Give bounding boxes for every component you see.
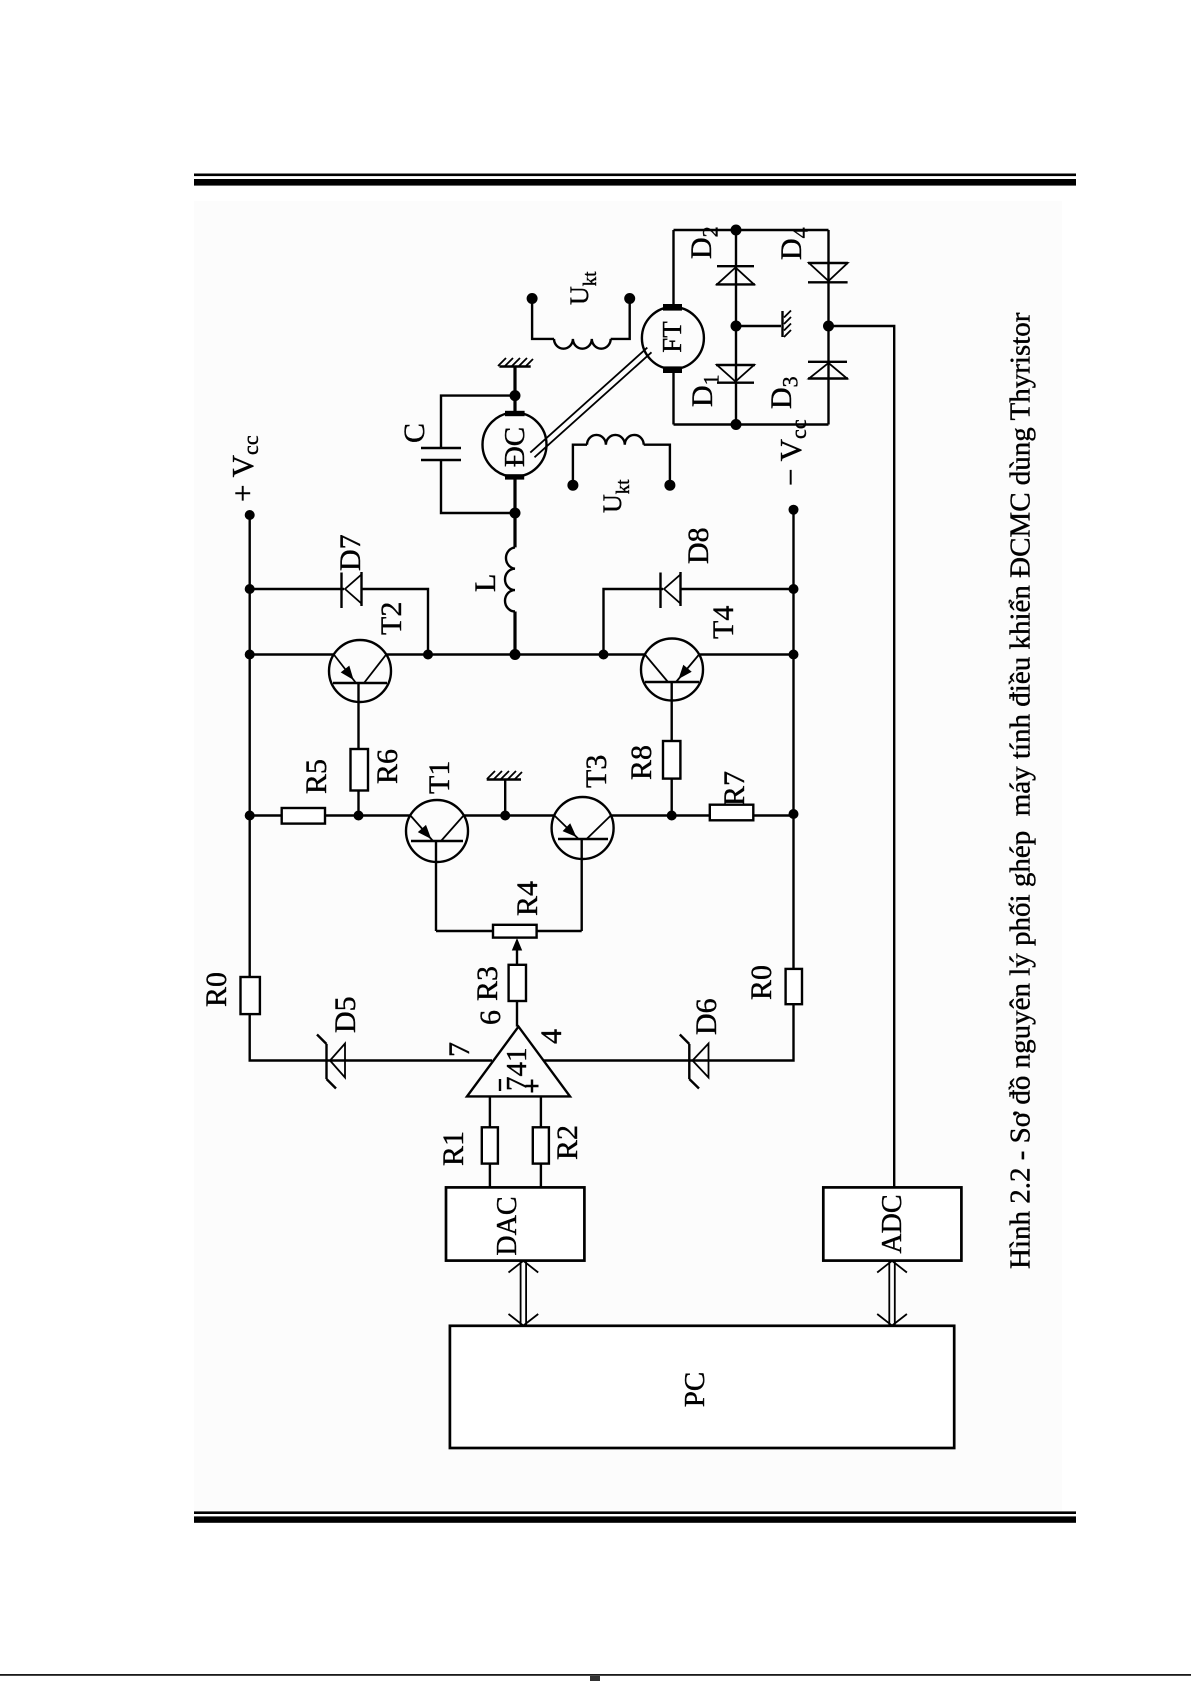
svg-text:T1: T1 bbox=[423, 761, 456, 794]
wire ground stub from bridge middle bbox=[736, 325, 781, 327]
bridge bottom side bbox=[827, 230, 829, 425]
resistor R3 bbox=[509, 965, 526, 1001]
node D7 branch at +Vcc rail bbox=[245, 584, 255, 594]
svg-text:D7: D7 bbox=[334, 534, 367, 571]
wire motor row left segment with inductor lead bbox=[513, 612, 516, 655]
tachogenerator FT bbox=[642, 304, 704, 373]
top double rule thin line bbox=[194, 174, 1076, 177]
node R5 column at +Vcc rail bbox=[245, 811, 255, 821]
node bridge middle junction bbox=[731, 321, 742, 332]
op-amp U1 741 triangle bbox=[467, 1027, 570, 1097]
resistor R6 bbox=[351, 749, 369, 791]
bridge right side bbox=[674, 229, 829, 231]
transistor T3 bbox=[552, 797, 614, 859]
diode D3 bbox=[808, 362, 848, 379]
node motor row at collector column bbox=[510, 649, 521, 660]
svg-text:R8: R8 bbox=[625, 745, 658, 780]
wire op-amp non-inverting input bbox=[540, 1096, 542, 1127]
resistor R0 (on -Vcc rail) bbox=[786, 969, 802, 1004]
wire T1 base line bbox=[435, 841, 437, 931]
capacitor C branch right side bbox=[441, 396, 515, 448]
wire -Vcc rail and left rise to op-amp pin 4 bbox=[544, 510, 794, 1061]
wire motor row right segment to ground bbox=[513, 367, 516, 413]
bottom page edge hairline bbox=[0, 1674, 1191, 1676]
wire D8 branch bbox=[604, 589, 794, 655]
svg-text:DAC: DAC bbox=[492, 1196, 523, 1255]
wire R4 column between T1 base and T3 base bbox=[436, 930, 582, 932]
node D8 branch at collector column bbox=[599, 650, 609, 660]
ground (mid circuit) bbox=[487, 771, 522, 780]
wire D7 branch bbox=[250, 589, 428, 655]
svg-text:R7: R7 bbox=[718, 771, 751, 806]
scan area tint bbox=[194, 201, 1062, 1511]
shaft coupling double line bbox=[530, 348, 651, 458]
ground (bridge) bbox=[783, 311, 792, 338]
bus PC-ADC right chevron bbox=[877, 1261, 907, 1273]
node D7 branch at collector column bbox=[423, 650, 433, 660]
resistor R8 bbox=[663, 741, 680, 779]
bus PC-ADC left chevron bbox=[877, 1314, 907, 1326]
svg-text:R0: R0 bbox=[745, 965, 778, 1000]
field winding Ukt (upper) bbox=[532, 299, 630, 349]
wire R3 to R4 wiper with arrow bbox=[516, 949, 518, 965]
svg-text:R1: R1 bbox=[437, 1131, 470, 1166]
node R5 column at -Vcc rail bbox=[789, 809, 799, 819]
svg-text:T4: T4 bbox=[707, 606, 740, 639]
inductor L bbox=[505, 547, 515, 611]
resistor R7 bbox=[710, 805, 754, 821]
svg-text:D5: D5 bbox=[329, 996, 362, 1033]
box PC bbox=[450, 1326, 954, 1448]
transistor T1 bbox=[406, 800, 468, 862]
page number mark at bottom center bbox=[590, 1676, 600, 1681]
op-amp minus input mark bbox=[499, 1079, 501, 1091]
resistor R1 bbox=[482, 1127, 498, 1163]
arrow R4 wiper head bbox=[512, 938, 522, 951]
bus PC-DAC double line bbox=[521, 1261, 527, 1324]
bridge top side left segment bbox=[672, 373, 674, 425]
wire DAC to R1 bbox=[489, 1164, 491, 1188]
diode D8 bbox=[661, 572, 681, 608]
diode D7 bbox=[342, 572, 362, 608]
resistor R2 bbox=[533, 1127, 549, 1163]
diode D1 bbox=[716, 365, 755, 383]
node Ukt lower right terminal bbox=[664, 480, 675, 491]
node Ukt lower left terminal bbox=[567, 480, 578, 491]
svg-text:C: C bbox=[398, 423, 431, 443]
svg-text:R6: R6 bbox=[371, 749, 404, 784]
op-amp plus input mark bbox=[526, 1080, 539, 1093]
node collector column at +Vcc rail bbox=[245, 650, 255, 660]
svg-text:L: L bbox=[469, 574, 502, 592]
svg-text:R3: R3 bbox=[471, 966, 504, 1001]
bottom double rule thin line bbox=[194, 1511, 1076, 1514]
zener diode D5 bbox=[317, 1035, 345, 1089]
wire bridge to ADC bbox=[829, 326, 895, 1187]
node Ukt upper left terminal bbox=[527, 293, 538, 304]
bus PC-DAC left chevron bbox=[509, 1314, 539, 1326]
motor DC machine bbox=[483, 411, 547, 480]
bridge top side right segment bbox=[672, 230, 674, 304]
wire T3 base line bbox=[581, 839, 583, 931]
node bridge middle right bbox=[731, 225, 742, 236]
svg-text:R0: R0 bbox=[200, 972, 233, 1007]
top double rule thick line bbox=[194, 179, 1076, 186]
node T2 base / R5 junction bbox=[354, 811, 364, 821]
node C branch left junction bbox=[510, 508, 521, 519]
svg-text:R5: R5 bbox=[300, 759, 333, 794]
field winding Ukt (lower) bbox=[573, 435, 670, 485]
wire op-amp output to R3 bbox=[516, 1001, 518, 1027]
svg-text:FT: FT bbox=[657, 321, 687, 353]
zener diode D6 bbox=[680, 1035, 709, 1089]
wire earth stub from R5 column bbox=[504, 780, 506, 816]
node T4 base / R5 junction bbox=[667, 811, 677, 821]
svg-text:D8: D8 bbox=[682, 527, 715, 564]
svg-text:T2: T2 bbox=[375, 602, 408, 635]
wire T2 base line bbox=[357, 683, 359, 816]
capacitor C branch left side bbox=[441, 460, 515, 513]
svg-text:D6: D6 bbox=[690, 998, 723, 1035]
node D8 branch at -Vcc rail bbox=[789, 584, 799, 594]
svg-text:4: 4 bbox=[535, 1029, 568, 1044]
svg-text:ADC: ADC bbox=[877, 1194, 908, 1253]
bus PC-DAC right chevron bbox=[509, 1261, 539, 1273]
wire +Vcc rail and left drop to op-amp pin 7 bbox=[250, 515, 492, 1061]
node C branch right junction bbox=[510, 390, 521, 401]
wire collector column from +Vcc rail to -Vcc rail bbox=[250, 653, 794, 655]
box DAC bbox=[446, 1187, 584, 1260]
box ADC bbox=[823, 1187, 961, 1260]
svg-text:R4: R4 bbox=[511, 881, 544, 916]
svg-text:741: 741 bbox=[501, 1048, 533, 1092]
svg-text:Hình 2.2 - Sơ đồ nguyên lý phố: Hình 2.2 - Sơ đồ nguyên lý phối ghép máy… bbox=[1005, 312, 1037, 1269]
bridge middle line bbox=[735, 230, 737, 425]
ground (motor right) bbox=[498, 358, 533, 367]
bridge left side bbox=[674, 423, 829, 425]
resistor R0 (on +Vcc rail) bbox=[241, 977, 260, 1014]
potentiometer R4 body bbox=[493, 925, 537, 938]
transistor T2 bbox=[329, 640, 391, 702]
node bridge middle left bbox=[731, 419, 742, 430]
bus PC-ADC double line bbox=[889, 1261, 895, 1324]
svg-text:R2: R2 bbox=[551, 1125, 584, 1160]
svg-text:6: 6 bbox=[474, 1010, 507, 1025]
svg-text:T3: T3 bbox=[580, 755, 613, 788]
resistor R5 bbox=[282, 808, 325, 824]
node earth stub junction bbox=[500, 811, 510, 821]
node -Vcc end dot bbox=[789, 505, 799, 515]
node +Vcc end dot bbox=[245, 510, 255, 520]
capacitor C plates bbox=[421, 448, 461, 460]
svg-text:ĐC: ĐC bbox=[499, 427, 531, 467]
wire R5 column from +Vcc rail to -Vcc rail bbox=[250, 814, 794, 816]
bottom double rule thick line bbox=[194, 1516, 1076, 1522]
node collector column at -Vcc rail bbox=[789, 650, 799, 660]
wire motor row from inductor to motor bbox=[513, 477, 516, 547]
svg-text:7: 7 bbox=[443, 1042, 476, 1057]
wire T4 base line bbox=[671, 682, 673, 816]
diode D2 bbox=[716, 266, 755, 284]
svg-text:PC: PC bbox=[679, 1372, 711, 1407]
transistor T4 bbox=[641, 639, 703, 701]
diode D4 bbox=[808, 263, 848, 282]
wire DAC to R2 bbox=[540, 1164, 542, 1188]
wire op-amp inverting input bbox=[489, 1096, 491, 1127]
node Ukt upper right terminal bbox=[624, 293, 635, 304]
node bridge bottom junction bbox=[823, 321, 834, 332]
